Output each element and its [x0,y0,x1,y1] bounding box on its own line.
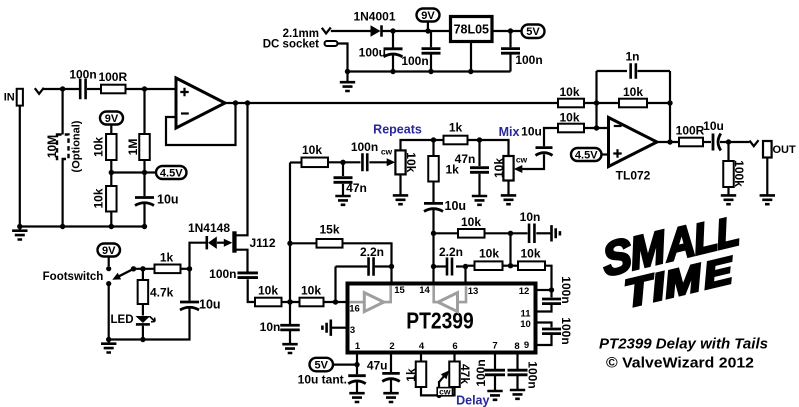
svg-text:1k: 1k [160,251,174,265]
svg-text:10k: 10k [461,215,481,229]
svg-text:10n: 10n [520,210,541,224]
OUT tip contact [750,140,759,146]
ground (power supply) [346,72,348,82]
ground (OUT jack) [760,195,775,204]
svg-text:47n: 47n [455,152,476,166]
svg-text:© ValveWizard 2012: © ValveWizard 2012 [606,355,754,372]
9V oval (footswitch) [98,244,121,257]
ground (pin7) [487,391,502,400]
node 47n junction [340,160,345,165]
svg-text:1k: 1k [449,121,463,135]
wire pin12 [536,289,552,291]
node op-amp1 output junctions [233,100,238,105]
capacitor 100n (repeats) [362,153,367,171]
node 4.5V junction [109,170,114,175]
svg-text:Footswitch: Footswitch [43,271,104,283]
wire input [43,88,79,90]
5V supply oval [522,25,545,39]
wire feedback op-amp1 [166,103,236,145]
svg-text:cw: cw [381,147,393,157]
potentiometer Repeats 10k [395,150,405,174]
capacitor 47n (mix lpf) [478,140,480,166]
svg-text:10u: 10u [445,199,467,213]
ground (pin3, sideways) [332,327,348,329]
wire 1n loop left [595,71,597,128]
wire ref riser [509,233,511,265]
resistor 10k (opamp a) [466,265,475,267]
wire sleeve to ground rail [338,44,348,72]
svg-text:4.7k: 4.7k [150,286,174,300]
capacitor 10n (riser) [280,325,300,330]
resistor 10k (bias lower) [106,186,117,212]
svg-text:3: 3 [350,325,355,336]
9V supply oval [417,9,440,22]
capacitor 1n (feedback) [597,70,628,72]
IN tip contact [35,88,44,94]
capacitor 10u (switch filter) [188,269,190,301]
svg-text:10u: 10u [703,119,724,133]
svg-text:47u: 47u [367,359,388,373]
wire pot top [401,140,434,150]
op-amp U3 TL072 [609,118,658,167]
potentiometer Mix 10k [503,156,513,181]
op-amp U1 (buffer) [176,78,225,128]
wire 100R to op-amp [126,88,177,90]
svg-text:10k: 10k [492,158,506,178]
node riser junctions [287,241,292,246]
svg-text:6: 6 [452,341,457,352]
diode 1N4001 [371,25,381,36]
svg-text:10M: 10M [45,135,59,158]
wire 10k to 10n [485,232,528,234]
ground (pin1) [349,393,364,402]
wire 10k-10k [282,301,300,303]
resistor 15k [290,242,317,244]
node mix node junction [477,137,482,142]
capacitor 10u (bias filter) [143,173,145,197]
svg-text:9V: 9V [102,245,116,257]
svg-text:TL072: TL072 [616,169,651,183]
wire pin13 riser [464,267,466,282]
wire cap to OUT [720,141,750,143]
svg-text:PT2399: PT2399 [406,308,474,334]
wire 9V to switch [108,257,110,267]
svg-text:9V: 9V [421,10,435,22]
svg-text:10u tant.: 10u tant. [298,373,347,387]
node pin13 junction [463,264,468,269]
node out junction [726,139,731,144]
capacitor 10u (lpf) [432,182,434,203]
regulator 78L05 [451,17,493,42]
wire 10k to 10k [584,102,619,104]
node 9V rail junction [390,28,395,33]
svg-text:PT2399 Delay with Tails: PT2399 Delay with Tails [599,337,768,353]
svg-text:(Optional): (Optional) [71,120,83,172]
capacitor 10n (ref) [529,224,534,244]
delay wiper arrow [438,381,440,395]
node delay wiper junction [436,393,441,398]
ground (pin2) [383,393,398,402]
node 1M bottom junction [142,170,147,175]
wire cap to 100R [87,88,101,90]
ground (repeats pot) [393,195,408,204]
svg-text:2.2n: 2.2n [360,245,384,259]
wire 78L05 ground pin [470,42,472,72]
svg-text:1N4148: 1N4148 [188,221,230,235]
wire 100k to ground [727,187,729,195]
capacitor 100n (pin7) [494,353,496,370]
wire pin6 to pot [453,353,455,362]
node fb junction [667,100,672,105]
label cw (delay) [437,388,452,396]
resistor 1M [143,89,145,134]
wire power ground rail [348,70,511,72]
node bias junction [142,86,147,91]
node power rail junctions [345,69,350,74]
svg-text:10u: 10u [521,124,542,138]
svg-text:47n: 47n [346,181,367,195]
wire pin1 down [356,353,358,375]
svg-text:9V: 9V [105,113,119,125]
capacitor 100n (9V rail) [430,31,432,47]
svg-text:J112: J112 [249,236,275,250]
9V oval (bias) [100,112,123,125]
resistor 10k (repeats feed) [290,161,302,163]
svg-text:100n: 100n [401,54,428,68]
svg-text:DC socket: DC socket [263,39,319,51]
svg-text:4.5V: 4.5V [575,149,598,161]
ground (pin8) [510,390,525,399]
svg-text:100n: 100n [559,317,573,344]
svg-text:1n: 1n [625,50,639,64]
wire 10k to ground rail [110,212,112,227]
wire switch to 1k [134,268,155,270]
wire 1k to node [181,268,190,270]
svg-text:cw: cw [439,386,451,396]
svg-text:11: 11 [520,309,531,320]
wire divider [110,160,112,186]
wire 10k to output node [647,102,670,104]
svg-text:100n: 100n [69,68,96,82]
capacitor 100n (input) [80,79,85,100]
wire 9V oval down [427,22,429,32]
svg-text:1k: 1k [404,368,418,382]
svg-text:100n: 100n [525,361,539,388]
capacitor 2.2n (pin15/16) [334,267,336,303]
node 10n junction [508,231,513,236]
node pin1 junction [354,362,359,367]
wire 5V to pin1 [333,364,357,366]
node 5V junction [508,28,513,33]
ground (input) [19,227,21,231]
capacitor 2.2n (pins 13/14) [434,265,449,267]
resistor 10k (opamp b) [503,265,519,267]
wire 1n loop right [669,71,671,142]
resistor 1k (gate) [155,265,181,274]
node vg junction [594,100,599,105]
resistor 1k (pin4) [420,353,422,362]
resistor 10k (send A) [255,298,282,307]
capacitor 100n (pins 10/9) [536,323,552,328]
node LED ground junctions [106,337,111,342]
DC socket tip contact [322,27,331,33]
node repeats bus junction [431,137,436,142]
svg-text:100u: 100u [359,46,386,60]
wire 100n to 10k [248,279,255,302]
svg-text:100R: 100R [676,124,705,138]
svg-text:10k: 10k [479,247,499,261]
mix wiper arrow [514,165,523,173]
svg-text:47k: 47k [458,364,472,384]
ground (footswitch) [108,340,110,344]
J112 gate lead [217,242,231,244]
ground (10n) [282,344,297,353]
LED [142,304,144,316]
svg-text:4: 4 [419,341,425,352]
node pin12 junction [549,287,554,292]
svg-text:5V: 5V [526,26,540,38]
capacitor 10u tant [348,374,366,377]
svg-text:1M: 1M [126,139,140,156]
svg-text:10u: 10u [157,193,179,207]
wire op-amp1 output [225,102,558,104]
capacitor 100n (5V rail) [509,31,511,47]
svg-text:10n: 10n [260,320,281,334]
capacitor 100n (JFET source) [237,273,258,278]
wire 9V to 10k [110,125,112,135]
svg-text:100R: 100R [98,70,127,84]
svg-text:100n: 100n [474,359,488,386]
4.5V oval (bias) [156,166,187,179]
capacitor 47n (repeats lpf) [342,162,344,176]
svg-text:OUT: OUT [773,144,797,156]
node input junction [60,86,65,91]
wire 10k to cap [328,161,361,163]
wire 10k to inverting input [584,127,609,129]
svg-text:100n: 100n [559,276,573,303]
wire OUT jack to ground [766,158,768,195]
svg-text:10k: 10k [520,247,540,261]
resistor 10k (pin14 ref) [434,232,459,234]
svg-text:10k: 10k [559,85,579,99]
svg-text:10k: 10k [92,137,106,157]
svg-text:4.5V: 4.5V [160,167,183,179]
svg-text:15: 15 [394,285,405,296]
svg-text:12: 12 [519,286,530,297]
ground (47n) [335,196,350,205]
internal buffer 1 (gray) [350,301,365,304]
capacitor 10u (mix out) [536,146,553,149]
node switch junctions [131,266,136,271]
svg-text:10k: 10k [302,143,322,157]
svg-text:100n: 100n [209,267,236,281]
svg-text:2.2n: 2.2n [439,245,463,259]
DC socket sleeve [325,41,338,46]
wire input ground rail [20,225,145,227]
5V oval (pin1) [310,358,334,372]
node inverting junction [594,125,599,130]
node pin16 junction [333,299,338,304]
svg-text:M: M [662,256,704,307]
ground (47n mix) [472,196,487,205]
repeats wiper arrow [369,161,387,163]
wire switch to ground [108,284,110,340]
wire 78L05 out to 5V [493,30,522,32]
node mid junction [508,263,513,268]
ground (100k) [721,195,736,204]
wire pot bottom to ground [399,174,401,194]
resistor 10k (mix in) [558,124,584,133]
diode 1N4148 [206,236,209,249]
wire 100R to cap [703,141,711,143]
svg-text:10k: 10k [301,284,321,298]
wire diode to footswitch node [190,243,206,269]
svg-text:IN: IN [4,92,15,104]
transistor Q1 J112 [232,231,236,252]
svg-text:100n: 100n [351,140,378,154]
wire 1k to mix node [468,140,509,156]
svg-text:cw: cw [516,154,528,164]
wire 4.5V line [111,171,156,173]
svg-text:100n: 100n [515,53,542,67]
svg-text:Mix: Mix [499,125,520,139]
svg-text:1: 1 [355,341,361,352]
wire diode to 78L05 [382,30,450,32]
LED emission arrow [150,317,155,322]
svg-text:78L05: 78L05 [454,23,489,37]
svg-text:10u: 10u [199,298,221,312]
node output junction [667,139,672,144]
wire feedback riser [289,163,291,325]
resistor 4.7k (LED) [142,269,144,280]
svg-text:10k: 10k [258,284,278,298]
capacitor 47u (pin2) [390,353,392,373]
wire 1k to pot bottom [421,387,455,395]
node gate RC junction [187,266,192,271]
svg-text:10k: 10k [559,110,579,124]
OUT jack [763,141,772,158]
svg-text:LED: LED [111,314,134,326]
svg-text:1N4001: 1N4001 [353,10,395,24]
wire 10k to pin16 [324,301,346,303]
svg-text:10k: 10k [404,152,418,172]
resistor 10k (bias upper) [106,134,117,160]
resistor 10k (feedback) [619,99,647,108]
ground (mix pot) [501,195,516,204]
resistor 10k (from buffer) [558,99,584,108]
4.5V oval (opamp2) [571,148,602,161]
resistor 10M (optional, dashed) [61,89,63,135]
resistor 100R [101,85,126,94]
internal buffer 2 (gray) [434,286,438,302]
IC U2 PT2399 [348,284,536,353]
wire tip to diode [331,30,371,32]
svg-text:7: 7 [492,341,497,352]
svg-text:14: 14 [419,285,430,296]
svg-text:10k: 10k [92,188,106,208]
resistor 1k (mix bus) [434,139,444,141]
svg-text:100k: 100k [732,160,746,187]
svg-text:10k: 10k [623,85,643,99]
svg-text:Delay: Delay [456,394,489,407]
svg-text:5V: 5V [315,360,329,372]
svg-text:16: 16 [349,304,360,315]
resistor 100k (pulldown) [727,142,729,161]
ground (10n ref, sideways) [552,225,560,241]
svg-text:8: 8 [514,341,519,352]
resistor 10k (send B) [300,298,324,307]
svg-text:15k: 15k [319,223,339,237]
node delay node junction [287,299,292,304]
resistor 100R (output) [679,138,703,147]
wire 10k to pin12 [545,266,552,290]
wire IN jack to ground rail [19,106,21,227]
capacitor 10u (output) [712,134,715,151]
capacitor 100n (pins 12/11) [550,290,552,297]
wire drain riser [237,103,248,235]
node ground rail junctions [17,224,22,229]
wire 15k to pin15 [343,243,392,281]
capacitor 100n (pin8) [516,353,518,370]
svg-text:9: 9 [524,340,529,351]
svg-text:13: 13 [468,286,479,297]
node 2.2n junction [389,264,394,269]
svg-text:10: 10 [520,319,531,330]
resistor 1k (lpf) [432,140,434,156]
wire 10n to ground [536,232,550,234]
wire pin14 riser junctions [431,231,436,236]
svg-text:Repeats: Repeats [373,123,422,137]
potentiometer Delay 47k [449,362,460,388]
wire opamp2 output [657,141,679,143]
capacitor 100u [392,31,394,48]
svg-text:2: 2 [389,341,394,352]
wire mix pot ground [507,181,509,195]
